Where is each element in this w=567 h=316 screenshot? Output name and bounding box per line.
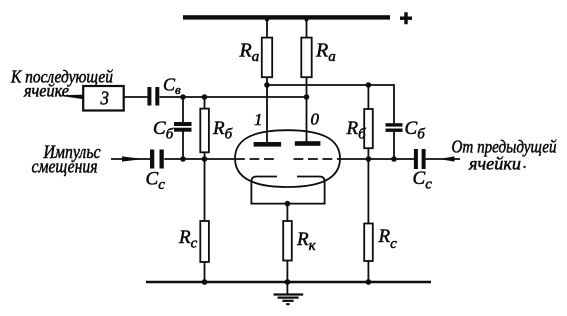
arrow bias pulse input (122, 156, 144, 161)
resistor Rk (283, 221, 292, 282)
ground rail (146, 279, 431, 285)
svg-text:Rб: Rб (346, 118, 367, 143)
anode 1 plate (254, 142, 282, 147)
wire: grid bus (middle line) (164, 156, 414, 162)
wire: lower cross-coupling line (160, 94, 310, 100)
arrow from previous cell (439, 156, 455, 161)
supply rail + (183, 12, 412, 24)
arrow to next cell (58, 95, 84, 100)
svg-text:Cс: Cс (146, 169, 166, 194)
tube envelope U1 (235, 130, 340, 187)
resistor Rc (right) (364, 159, 373, 282)
svg-text:Cб: Cб (153, 118, 174, 143)
capacitor Cc (left, bias input) (111, 150, 164, 169)
block 3 (delay cell) (83, 86, 147, 111)
resistor Rб (left) (200, 97, 209, 159)
svg-text:Cб: Cб (405, 118, 426, 143)
svg-text:0: 0 (311, 110, 320, 129)
svg-text:Rс: Rс (178, 227, 198, 252)
svg-text:Ra: Ra (239, 40, 260, 66)
punctuation dot (523, 166, 525, 168)
svg-text:1: 1 (254, 110, 263, 129)
svg-text:ячейки: ячейки (468, 154, 521, 174)
resistor Rc (left) (200, 159, 209, 282)
svg-text:Rб: Rб (212, 118, 233, 143)
svg-text:смещения: смещения (32, 158, 98, 178)
wire: left anode lead (266, 77, 268, 143)
capacitor Cв (147, 87, 159, 106)
svg-text:3: 3 (100, 88, 109, 110)
node cathode tap (285, 201, 291, 221)
svg-text:Cс: Cс (413, 168, 433, 193)
capacitor Cб (left) (174, 97, 192, 159)
resistor Rб (right) (364, 85, 373, 159)
svg-text:Rс: Rс (378, 226, 398, 252)
ground symbol (274, 282, 304, 304)
wire: right anode lead (306, 77, 308, 142)
anode 0 plate (295, 141, 321, 146)
capacitor Cc (right, input from previous cell) (414, 149, 460, 169)
cathode (251, 177, 324, 204)
svg-text:ячейке: ячейке (23, 81, 69, 101)
wire: upper cross-coupling line (264, 82, 394, 123)
resistor Ra (right) (301, 18, 311, 78)
resistor Ra (left) (262, 18, 272, 78)
capacitor Cб (right) (386, 123, 403, 159)
svg-text:Ra: Ra (315, 40, 336, 66)
svg-text:Rк: Rк (296, 229, 317, 254)
svg-text:Cв: Cв (163, 75, 181, 98)
